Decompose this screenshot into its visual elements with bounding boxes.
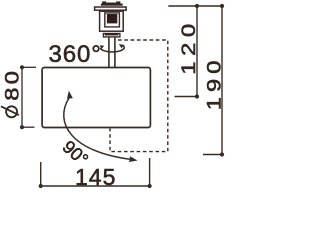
stem bbox=[109, 38, 115, 68]
adapter neck step bbox=[103, 34, 120, 37]
dim phi80 bbox=[20, 65, 36, 129]
dim 120 bbox=[175, 4, 200, 99]
adapter window bbox=[105, 13, 120, 27]
rotation ellipse (360-degree arrow) bbox=[100, 44, 124, 52]
svg-text:80: 80 bbox=[2, 68, 23, 101]
svg-text:190: 190 bbox=[204, 56, 225, 111]
adapter top contacts bbox=[102, 1, 120, 3]
90-degree swing arrow bbox=[64, 91, 138, 162]
phi80 label bbox=[1, 106, 19, 117]
adapter body bbox=[100, 11, 124, 31]
dim 190 bbox=[203, 4, 224, 157]
dashed swung-body outline bbox=[110, 40, 168, 152]
svg-text:120: 120 bbox=[178, 18, 199, 74]
dim 145 bbox=[39, 158, 152, 188]
svg-text:145: 145 bbox=[75, 164, 116, 190]
svg-text:360°: 360° bbox=[49, 41, 102, 68]
top extension line bbox=[168, 5, 223, 7]
adapter cap bar bbox=[101, 4, 123, 6]
adapter flange bbox=[95, 7, 127, 10]
fixture body bbox=[42, 68, 150, 128]
